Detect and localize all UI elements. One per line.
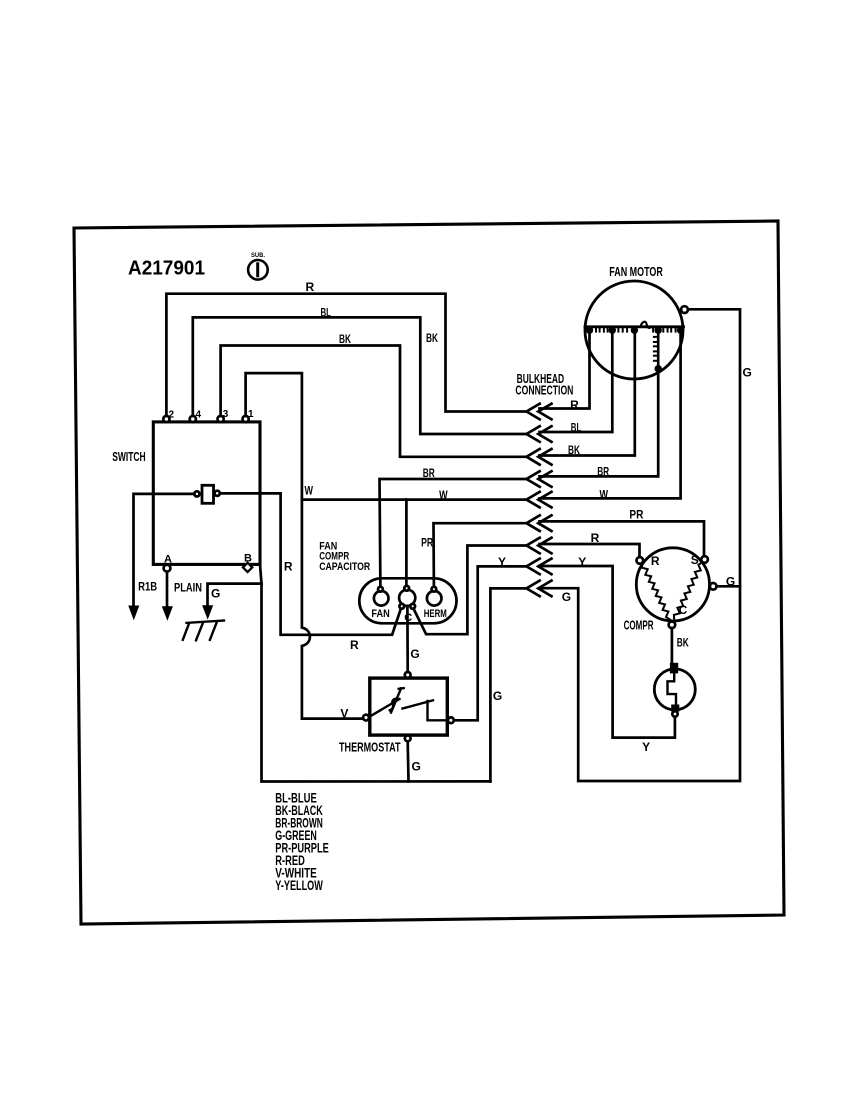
fan motor ground terminal (681, 306, 688, 313)
svg-text:R: R (306, 280, 315, 294)
compressor R winding (642, 563, 670, 619)
arrow R1B (128, 606, 139, 621)
svg-text:G: G (412, 760, 421, 774)
svg-text:PR: PR (421, 535, 433, 549)
svg-text:CONNECTION: CONNECTION (515, 384, 573, 398)
bulkhead connector chevron row 3 (BK) (527, 449, 552, 465)
svg-text:SWITCH: SWITCH (112, 450, 146, 464)
svg-text:2: 2 (169, 410, 175, 421)
svg-text:Y: Y (578, 555, 586, 569)
wire W right: row5 to fan motor tap 5 (540, 327, 681, 498)
svg-text:BR: BR (597, 464, 609, 478)
svg-text:S: S (691, 553, 699, 567)
bulkhead connector chevron row 1 (R) (527, 404, 552, 420)
wire PR: capacitor HERM up to bulkhead row 6 (434, 523, 527, 587)
sub symbol circle (248, 252, 268, 280)
svg-text:G: G (562, 590, 571, 604)
wire G right: row9 down to G bus right segment (540, 309, 741, 781)
svg-text:CAPACITOR: CAPACITOR (319, 561, 370, 573)
overload bottom terminal (672, 711, 677, 716)
thermostat bottom terminal (405, 736, 411, 742)
svg-text:Y: Y (498, 555, 506, 569)
thermostat left terminal (363, 715, 369, 721)
wire BL right: row2 to fan motor tap 2 (540, 327, 613, 432)
wire BK right: row3 to fan motor tap 3 (540, 327, 635, 456)
fan motor tap dot 4 (655, 327, 662, 334)
compressor terminal S (691, 553, 708, 567)
svg-text:R1B: R1B (138, 580, 157, 594)
svg-text:G: G (743, 365, 752, 379)
label FAN COMPR CAPACITOR (319, 540, 370, 572)
wire W branch: junction to bulkhead row 5 with tap to capacitor C (302, 498, 527, 501)
thermostat right terminal (448, 717, 454, 723)
fan motor tap dot 3 (631, 327, 638, 334)
svg-text:Y-YELLOW: Y-YELLOW (275, 878, 323, 893)
fan motor winding coil ticks (596, 327, 676, 332)
bulkhead connector chevron row 8 (Y) (527, 559, 552, 575)
svg-text:BK: BK (568, 443, 580, 457)
wire: tap down to capacitor C terminal (405, 500, 408, 587)
wire BL: switch T4 to bulkhead row 2 (193, 317, 527, 434)
svg-text:G: G (410, 647, 419, 661)
wire G: switch box corner to ground arrow and down to G bus (208, 564, 262, 605)
wire R1B: switch component left side down to arrow (134, 494, 195, 606)
svg-text:3: 3 (223, 409, 229, 420)
fan motor inner vertical winding (654, 327, 662, 373)
compressor S winding (674, 562, 702, 619)
svg-text:BK: BK (677, 636, 689, 650)
compressor circle (636, 548, 709, 621)
wire W: switch T1 down to thermostat left (with hop over R wire) (246, 373, 364, 718)
svg-text:BL: BL (571, 421, 582, 435)
svg-text:C: C (679, 603, 688, 617)
wire PLAIN: terminal A down to arrow (166, 572, 169, 607)
wire R right: row7 to compressor R (540, 544, 640, 557)
wire R: switch component right side to capacitor C bottom-left (220, 493, 401, 634)
chassis ground symbol (183, 621, 224, 641)
wire R: switch T2 up and over to bulkhead row 1 (166, 294, 526, 416)
svg-text:THERMOSTAT: THERMOSTAT (339, 741, 401, 755)
wire G: thermostat bottom to G bus (406, 741, 409, 781)
switch terminal 3 (218, 409, 229, 422)
svg-text:4: 4 (196, 410, 202, 421)
capacitor C terminal (399, 586, 415, 624)
overload top terminal block (670, 663, 678, 674)
compressor terminal G (710, 574, 735, 589)
compressor terminal R (637, 554, 660, 568)
svg-text:COMPR: COMPR (624, 618, 654, 632)
fan motor tap dot 5 (677, 327, 684, 334)
wire G: compressor G to right G vertical (717, 585, 741, 588)
svg-text:A217901: A217901 (128, 258, 205, 280)
svg-text:HERM: HERM (424, 608, 447, 620)
svg-text:FAN: FAN (371, 608, 389, 620)
svg-text:B: B (244, 553, 252, 565)
svg-text:R: R (591, 531, 600, 545)
svg-text:R: R (284, 560, 293, 574)
wire BR: capacitor FAN up to bulkhead row 4 (380, 479, 527, 587)
svg-text:W: W (439, 488, 448, 502)
svg-text:1: 1 (248, 409, 254, 420)
svg-text:V: V (340, 706, 348, 720)
legend color code (275, 791, 329, 894)
wire R right: row1 to fan motor tap 1 (540, 327, 590, 409)
wire Y left: row8 to thermostat right terminal (454, 566, 527, 720)
arrow G (to chassis ground) (202, 605, 213, 619)
svg-text:R: R (350, 638, 359, 652)
thermostat box (370, 678, 448, 735)
svg-text:BL: BL (321, 305, 332, 319)
overload internal element (668, 673, 677, 704)
wire BR right: row4 to fan motor tap 4 (540, 372, 659, 476)
capacitor FAN COMPR CAPACITOR body (359, 578, 456, 623)
svg-text:G: G (493, 689, 502, 703)
svg-text:SUB.: SUB. (251, 252, 265, 259)
wire G left: row9 down to G bus (490, 588, 526, 781)
svg-text:BK: BK (426, 331, 438, 345)
capacitor HERM terminal (424, 587, 447, 620)
thermostat top terminal (405, 672, 411, 678)
switch terminal B (243, 553, 252, 572)
bulkhead connector chevron row 4 (BR) (527, 471, 552, 487)
wire R: capacitor C bottom-right up to bulkhead row 7 (414, 546, 527, 635)
wire PR right: row6 to compressor S (540, 521, 705, 556)
border frame (74, 221, 784, 924)
overload bottom terminal block (671, 705, 679, 712)
switch terminal A (164, 554, 172, 572)
wire G: capacitor C down to thermostat (406, 606, 409, 672)
svg-text:BK: BK (339, 332, 351, 346)
switch terminal 1 (243, 409, 255, 422)
wire G bus left segment (262, 584, 491, 782)
bulkhead connector chevron row 6 (PR) (527, 515, 552, 531)
compressor terminal C (669, 603, 688, 628)
switch terminal 4 (190, 410, 202, 423)
svg-text:PLAIN: PLAIN (174, 581, 202, 595)
thermostat switch blade (369, 688, 448, 720)
svg-text:G: G (211, 587, 220, 601)
fan motor tap dot 1 (586, 327, 593, 334)
switch box (153, 422, 260, 565)
svg-text:R: R (570, 398, 579, 412)
wire BK: switch T3 to bulkhead row 3 (221, 346, 527, 457)
bulkhead connector chevron row 7 (R) (527, 538, 552, 554)
switch terminal 2 (163, 410, 174, 423)
bulkhead connector chevron row 9 (G) (527, 581, 552, 597)
svg-text:Y: Y (642, 740, 650, 754)
svg-text:PR: PR (629, 508, 643, 522)
capacitor FAN terminal (371, 587, 389, 620)
svg-text:W: W (600, 487, 609, 501)
switch internal interlock component (194, 485, 220, 503)
svg-text:FAN MOTOR: FAN MOTOR (609, 265, 663, 279)
svg-text:A: A (164, 554, 172, 566)
wire BK: compressor C to overload (671, 628, 674, 663)
overload protector circle (654, 669, 695, 710)
wire Y right: row8 down to overload bottom (540, 566, 675, 738)
arrow PLAIN (162, 606, 173, 621)
fan motor internal protector squiggle (641, 322, 652, 328)
label BULKHEAD CONNECTION (515, 372, 573, 398)
fan motor tap dot 2 (609, 327, 616, 334)
bulkhead connector chevron row 2 (BL) (527, 426, 552, 442)
svg-text:BR: BR (423, 466, 435, 480)
svg-text:W: W (305, 483, 314, 497)
bulkhead connector chevron row 5 (W) (527, 492, 552, 508)
svg-text:R: R (651, 554, 660, 568)
fan motor circle (585, 281, 683, 379)
fan motor main winding line (585, 325, 684, 328)
